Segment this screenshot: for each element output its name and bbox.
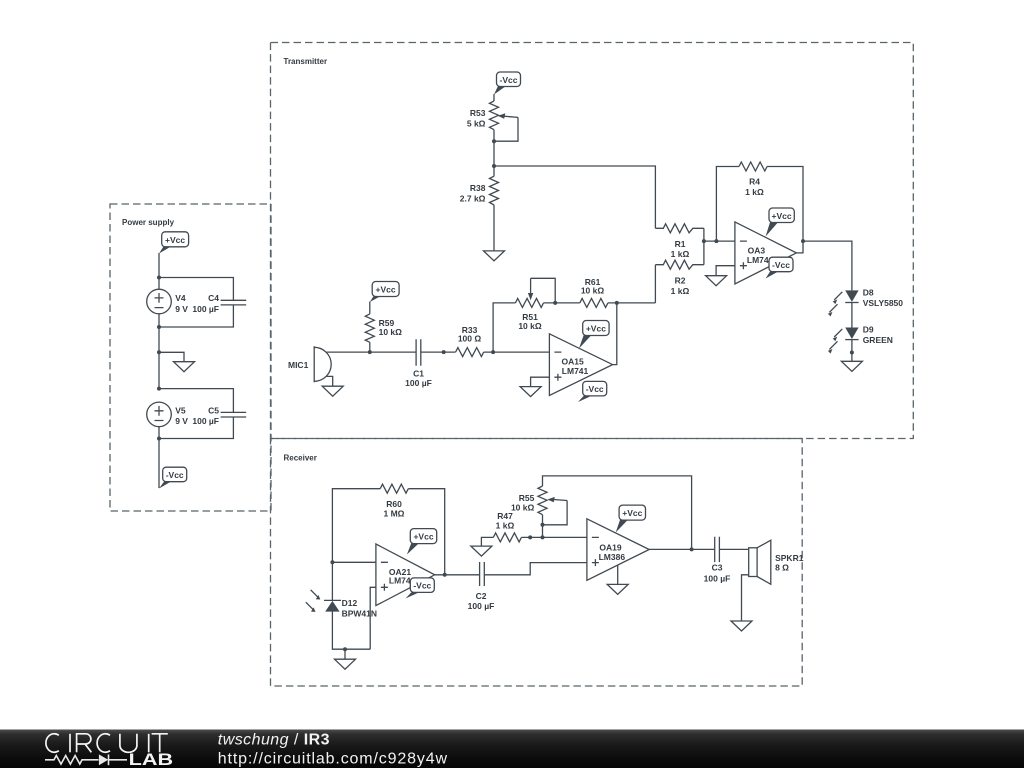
node dot mic/R59 (368, 350, 372, 354)
svg-text:LM386: LM386 (599, 552, 626, 562)
svg-text:-Vcc: -Vcc (413, 581, 431, 591)
svg-text:R55: R55 (519, 493, 535, 503)
svg-text:D12: D12 (342, 598, 358, 608)
op-amp OA15 (549, 334, 612, 396)
wire C5 loop bottom (159, 417, 233, 439)
svg-text:2.7 kΩ: 2.7 kΩ (460, 193, 486, 203)
svg-text:R53: R53 (470, 108, 486, 118)
wire OA21 non-inverting input down (370, 587, 376, 649)
wire +Vcc to V4 (158, 253, 160, 289)
svg-text:100 µF: 100 µF (192, 416, 219, 426)
svg-text:V4: V4 (175, 293, 186, 303)
node dot R51/R61 (553, 301, 557, 305)
svg-text:BPW41N: BPW41N (342, 608, 377, 618)
wire -Vcc to R53 (493, 94, 495, 101)
voltage source V5 (147, 402, 189, 427)
svg-text:100 Ω: 100 Ω (458, 333, 482, 343)
node dot D12 ground (343, 647, 347, 651)
ground (LED chain) (841, 361, 862, 371)
ground (OA19) (607, 584, 628, 594)
wire R55 wiper loop (543, 501, 568, 525)
svg-text:VSLY5850: VSLY5850 (863, 298, 904, 308)
wire branch up to R51 (493, 303, 515, 352)
svg-text:1 kΩ: 1 kΩ (496, 520, 515, 530)
resistor R38 (460, 176, 499, 205)
svg-text:+Vcc: +Vcc (622, 508, 642, 518)
wire OA3 non-inverting input to ground (716, 266, 735, 276)
microphone MIC1 (288, 346, 331, 382)
svg-text:Power supply: Power supply (122, 218, 175, 227)
wire OA3 output stub (796, 252, 803, 254)
wire R51 to R61 (544, 302, 580, 304)
node dot OA19 output feedback (690, 547, 694, 551)
CircuitLab logo resistor-diode glyph (45, 754, 127, 765)
node dot R55 bottom junction (541, 535, 545, 539)
svg-text:-Vcc: -Vcc (166, 470, 184, 480)
wire OA19 output to C3 (649, 548, 714, 550)
ground (below R38) (484, 251, 505, 261)
wire R53 to R38 (493, 130, 495, 177)
wire R61 to R2 row (608, 302, 656, 304)
node dot R4 branch (714, 239, 718, 243)
capacitor C4 (192, 293, 246, 314)
wire C3 to speaker (719, 548, 748, 550)
svg-text:R1: R1 (675, 239, 686, 249)
node dot R55 wiper junction (541, 523, 545, 527)
capacitor C5 (192, 406, 246, 427)
wire to receiver input ground (344, 649, 346, 659)
svg-text:C3: C3 (712, 563, 723, 573)
svg-text:10 kΩ: 10 kΩ (581, 285, 605, 295)
svg-text:MIC1: MIC1 (288, 360, 309, 370)
node dot below V4 (157, 325, 161, 329)
flag -Vcc (above R53) (494, 72, 521, 95)
wire D9 to ground (851, 340, 853, 362)
svg-text:R38: R38 (470, 183, 486, 193)
svg-text:9 V: 9 V (175, 416, 188, 426)
transmitter enclosure box (271, 43, 914, 439)
wire MIC1 output (327, 351, 370, 353)
resistor R4 (739, 162, 767, 197)
wire R4 loop left (716, 167, 739, 242)
svg-text:+Vcc: +Vcc (586, 324, 606, 334)
flag +Vcc (OA3) (766, 208, 795, 237)
svg-text:D8: D8 (863, 288, 874, 298)
ground (R47 left) (471, 546, 492, 556)
svg-text:5 kΩ: 5 kΩ (467, 118, 486, 128)
node dot above LED ground (850, 351, 854, 355)
node dot R47/C? (528, 535, 532, 539)
svg-text:C4: C4 (208, 293, 219, 303)
svg-text:GREEN: GREEN (863, 335, 893, 345)
wire R33 to OA15 inverting input (484, 351, 550, 353)
speaker SPKR1 (749, 540, 804, 584)
resistor R59 (365, 314, 402, 342)
svg-text:V5: V5 (175, 406, 186, 416)
svg-text:-Vcc: -Vcc (500, 75, 518, 85)
wire node to C1 (370, 351, 416, 353)
node dot top of V5 loop (157, 387, 161, 391)
svg-text:OA3: OA3 (748, 245, 766, 255)
wire R47 to OA19 inverting input (521, 536, 587, 538)
wire R55 top feedback loop (543, 476, 692, 550)
node dot C1/R33 (442, 350, 446, 354)
wire MIC1 to ground (326, 376, 333, 386)
wire R51 wiper loop (531, 278, 556, 303)
wire D12 bottom loop (332, 612, 370, 650)
wire ground to R47 (481, 537, 493, 546)
resistor R60 (380, 484, 408, 518)
svg-text:twschung / IR3: twschung / IR3 (218, 732, 330, 749)
svg-text:LM741: LM741 (562, 366, 589, 376)
capacitor C1 (405, 339, 432, 388)
svg-text:+Vcc: +Vcc (165, 235, 185, 245)
LED D9 (828, 325, 893, 354)
svg-text:http://circuitlab.com/c928y4w: http://circuitlab.com/c928y4w (218, 751, 448, 768)
node dot OA3 output (801, 239, 805, 243)
wire C4 loop bottom (159, 305, 233, 327)
svg-text:10 kΩ: 10 kΩ (379, 327, 403, 337)
wire R60 loop (left and top) (332, 489, 380, 563)
svg-text:8 Ω: 8 Ω (775, 562, 789, 572)
wire V5 bottom to -Vcc (158, 427, 160, 488)
svg-text:OA19: OA19 (599, 542, 621, 552)
wire OA21 output stub (435, 574, 480, 576)
svg-text:1 kΩ: 1 kΩ (671, 249, 690, 259)
svg-text:1 kΩ: 1 kΩ (671, 286, 690, 296)
node dot OA21 inverting node (330, 560, 334, 564)
photodiode D12 (306, 590, 377, 619)
flag +Vcc (OA19) (616, 505, 646, 532)
ground (OA15 + input) (520, 387, 541, 397)
wire C2 to OA19 non-inverting input (484, 563, 587, 575)
node dot OA21 output (443, 573, 447, 577)
wire R4 loop right (767, 167, 803, 254)
flag -Vcc (OA21) (406, 578, 435, 599)
wire R2 left branch (654, 265, 656, 303)
ground (power supply) (174, 362, 195, 372)
potentiometer R55 (511, 486, 567, 515)
wire junction to R1/R2 branch (494, 166, 655, 228)
wire +Vcc to R59 (369, 302, 371, 314)
wire C5 loop top (159, 389, 233, 413)
resistor R33 (456, 325, 484, 357)
wire to OA21 inverting input (332, 561, 376, 563)
node dot R33/R51 branch (491, 350, 495, 354)
resistor R47 (493, 511, 521, 542)
svg-text:Receiver: Receiver (284, 454, 317, 463)
flag +Vcc (above R59) (370, 282, 399, 303)
svg-text:1 kΩ: 1 kΩ (745, 187, 764, 197)
resistor R61 (580, 277, 608, 307)
svg-text:100 µF: 100 µF (468, 601, 495, 611)
svg-text:Transmitter: Transmitter (284, 57, 328, 66)
svg-text:C1: C1 (413, 368, 424, 378)
svg-text:1 MΩ: 1 MΩ (384, 508, 405, 518)
wire junction to OA3 inverting input (704, 240, 735, 242)
svg-text:-Vcc: -Vcc (772, 260, 790, 270)
wire OA3 output to LEDs (803, 241, 852, 290)
node dot R53/R38 junction (492, 164, 496, 168)
op-amp OA3 (735, 222, 797, 284)
wire branch down to OA15 output (613, 303, 617, 365)
wire OA19 ground pin (617, 565, 619, 584)
wire OA15 non-inverting input to ground (531, 377, 550, 386)
wire R59 to mic node (369, 342, 371, 352)
node dot R61/OA15 output branch (615, 301, 619, 305)
svg-text:C5: C5 (208, 406, 219, 416)
svg-text:+Vcc: +Vcc (772, 211, 792, 221)
svg-text:+Vcc: +Vcc (376, 285, 396, 295)
wire V4 bottom to V5 top (158, 314, 160, 389)
svg-text:R4: R4 (749, 177, 760, 187)
svg-text:+Vcc: +Vcc (413, 532, 433, 542)
wire D12 top (331, 562, 333, 600)
capacitor C2 (468, 562, 495, 611)
wire R53 wiper loop (494, 117, 518, 141)
wire C4 loop top (159, 278, 233, 301)
svg-text:10 kΩ: 10 kΩ (518, 321, 542, 331)
flag -Vcc (OA15) (578, 381, 607, 402)
wire R38 to ground (493, 205, 495, 251)
flag -Vcc (power supply bottom) (159, 467, 187, 488)
wire R60 loop (right) (408, 489, 444, 575)
wire to power supply ground (159, 352, 184, 361)
ground (MIC1) (322, 386, 343, 396)
LED D8 (828, 288, 903, 317)
flag +Vcc (power supply top) (159, 232, 189, 254)
wire R1/R2 right junction (703, 228, 705, 264)
voltage source V4 (147, 289, 189, 314)
wire C1 to R33 (421, 351, 456, 353)
resistor R1 (655, 224, 704, 259)
svg-text:9 V: 9 V (175, 304, 188, 314)
ground (speaker) (731, 621, 752, 631)
svg-text:10 kΩ: 10 kΩ (511, 502, 535, 512)
ground (OA3 + input) (706, 276, 727, 286)
svg-text:D9: D9 (863, 325, 874, 335)
node dot R53 bottom (492, 139, 496, 143)
svg-text:R2: R2 (675, 276, 686, 286)
wire R55 bottom to R47 row (542, 515, 544, 538)
power supply enclosure box (110, 204, 271, 511)
svg-text:SPKR1: SPKR1 (775, 553, 804, 563)
svg-text:100 µF: 100 µF (192, 304, 219, 314)
op-amp OA19 (587, 519, 649, 581)
node dot top of V4 loop (157, 276, 161, 280)
capacitor C3 (704, 537, 731, 584)
op-amp OA21 (376, 544, 435, 606)
svg-text:-Vcc: -Vcc (586, 384, 604, 394)
node dot at ground tap (157, 350, 161, 354)
potentiometer R51 (515, 278, 543, 331)
svg-text:LAB: LAB (129, 751, 174, 768)
flag -Vcc (OA3) (766, 257, 793, 278)
node dot R1/R2 junction (702, 239, 706, 243)
node dot below V5 (157, 437, 161, 441)
flag +Vcc (OA21) (407, 529, 437, 555)
svg-text:100 µF: 100 µF (405, 378, 432, 388)
potentiometer R53 (467, 101, 518, 130)
resistor R2 (655, 260, 704, 296)
flag +Vcc (OA15) (579, 321, 609, 349)
svg-text:100 µF: 100 µF (704, 574, 731, 584)
wire speaker to ground (742, 575, 749, 621)
receiver enclosure box (271, 439, 803, 687)
svg-text:C2: C2 (476, 591, 487, 601)
CircuitLab logo word CIRCUIT (46, 734, 168, 753)
wire D8 to D9 (851, 303, 853, 328)
ground (D12 loop) (335, 659, 356, 669)
